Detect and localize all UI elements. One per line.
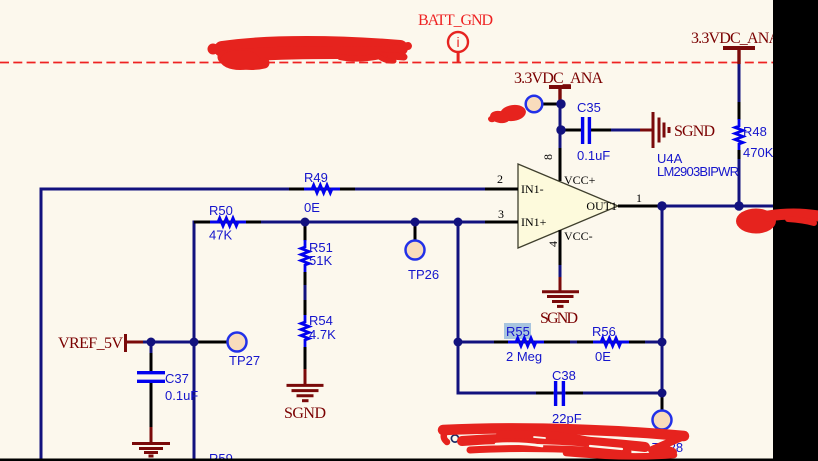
- VREF_5V power port bar: [124, 334, 127, 352]
- capacitor C38 leads: [536, 392, 553, 395]
- wire VCC vertical: [559, 101, 562, 148]
- test point TP26 stub: [414, 222, 417, 241]
- resistor R50 leads: [194, 221, 210, 224]
- resistor R54: [301, 315, 309, 347]
- ground below C37: [132, 427, 170, 456]
- svg-text:IN1-: IN1-: [521, 182, 544, 196]
- svg-text:51K: 51K: [309, 253, 332, 268]
- resistor R55: [508, 338, 544, 346]
- capacitor C37: [137, 373, 165, 382]
- R55 highlight: [504, 323, 531, 339]
- svg-text:R56: R56: [592, 324, 616, 339]
- svg-text:R49: R49: [304, 170, 328, 185]
- power bar 3.3VDC (right): [723, 46, 755, 50]
- BATT_GND port circle: [448, 32, 468, 63]
- resistor R48: [735, 119, 743, 151]
- test point TP26: [406, 241, 425, 260]
- wire IN1+ net horizontal: [194, 221, 485, 224]
- resistor R50: [210, 218, 246, 226]
- screen black right bar: [773, 0, 818, 461]
- svg-text:R50: R50: [209, 203, 233, 218]
- ground SGND below R54: [287, 369, 324, 401]
- svg-text:4: 4: [546, 241, 560, 247]
- pin 2 lead: [485, 188, 518, 191]
- svg-text:OUT1: OUT1: [586, 199, 617, 213]
- svg-text:8: 8: [541, 154, 555, 160]
- capacitor C35 leads: [560, 129, 581, 132]
- svg-text:C37: C37: [165, 371, 189, 386]
- wire feedback top row: [458, 341, 662, 344]
- svg-text:LM2903BIPWR: LM2903BIPWR: [657, 164, 739, 179]
- wire R51 chain vertical: [304, 222, 307, 241]
- svg-text:BATT_GND: BATT_GND: [418, 12, 493, 29]
- pin 4 lead: [559, 230, 562, 265]
- svg-text:3.3VDC_ANA: 3.3VDC_ANA: [691, 30, 780, 47]
- wire output vertical to feedback: [661, 206, 664, 393]
- svg-text:4.7K: 4.7K: [309, 327, 336, 342]
- wire VREF net horizontal: [143, 341, 196, 344]
- op-amp U1 triangle: [518, 164, 618, 248]
- wire IN1+ net left vertical: [193, 221, 196, 460]
- svg-text:47K: 47K: [209, 228, 232, 243]
- red scribble right (over output): [736, 209, 776, 234]
- svg-text:C38: C38: [552, 368, 576, 383]
- svg-text:3: 3: [498, 207, 504, 221]
- red scribble bottom: [443, 428, 684, 456]
- resistor R1 leads (R49): [289, 188, 304, 191]
- svg-text:0E: 0E: [304, 200, 320, 215]
- svg-text:2: 2: [497, 172, 503, 186]
- svg-text:3.3VDC_ANA: 3.3VDC_ANA: [514, 70, 603, 87]
- svg-text:0E: 0E: [595, 349, 611, 364]
- wire IN1- net left vertical: [40, 188, 43, 460]
- svg-text:IN1+: IN1+: [521, 215, 547, 229]
- capacitor C38: [556, 381, 564, 406]
- svg-text:VCC+: VCC+: [564, 173, 596, 187]
- pin 3 lead: [485, 221, 518, 224]
- resistor R56: [593, 338, 629, 346]
- svg-text:R54: R54: [309, 313, 333, 328]
- svg-text:0.1uF: 0.1uF: [577, 148, 610, 163]
- test point (3.3VDC_ANA): [526, 96, 543, 113]
- svg-text:TP27: TP27: [229, 353, 260, 368]
- test point TP27: [228, 333, 247, 352]
- wire IN1- net horizontal: [41, 188, 485, 191]
- resistor R56 leads: [577, 341, 593, 344]
- capacitor C37 leads: [150, 342, 153, 353]
- svg-text:i: i: [456, 34, 459, 50]
- red scribble top: [222, 44, 408, 64]
- ground SGND sideways (C35): [640, 112, 669, 148]
- svg-text:R48: R48: [743, 124, 767, 139]
- svg-text:C35: C35: [577, 100, 601, 115]
- test point TP28 stub: [661, 393, 664, 411]
- capacitor C35: [583, 117, 590, 144]
- test point TP top stub: [541, 103, 560, 106]
- ground SGND below pin 4: [559, 265, 562, 277]
- svg-text:SGND: SGND: [284, 405, 326, 422]
- resistor R55 leads: [494, 341, 508, 344]
- svg-text:1: 1: [636, 191, 642, 205]
- svg-text:VREF_5V: VREF_5V: [58, 335, 123, 352]
- svg-text:VCC-: VCC-: [564, 229, 593, 243]
- svg-text:TP26: TP26: [408, 267, 439, 282]
- wire between R51 and R54: [304, 272, 307, 285]
- node remnant glyph: [451, 435, 458, 442]
- test point TP28: [653, 411, 672, 430]
- svg-text:470K: 470K: [743, 145, 774, 160]
- svg-text:SGND: SGND: [540, 310, 578, 327]
- wire inverting feedback vertical: [457, 222, 460, 342]
- power bar 3.3VDC_ANA: [549, 85, 571, 89]
- wire C38 row: [457, 341, 460, 395]
- wire R48 chain: [738, 64, 741, 102]
- wire output net: [658, 205, 773, 208]
- screen black bottom edge: [0, 459, 818, 461]
- pin 1 output lead: [618, 205, 658, 208]
- svg-text:2 Meg: 2 Meg: [506, 349, 542, 364]
- svg-text:0.1uF: 0.1uF: [165, 388, 198, 403]
- resistor R51: [301, 240, 309, 272]
- resistor R49: [304, 185, 340, 193]
- red scribble near test point: [499, 103, 527, 122]
- red dashed annotation line: [0, 62, 773, 64]
- svg-text:SGND: SGND: [674, 123, 715, 140]
